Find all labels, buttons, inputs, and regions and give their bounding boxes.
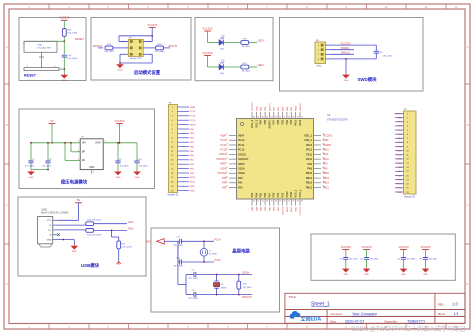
wire top loop to header pin1 (119, 36, 152, 42)
svg-text:VSS_1: VSS_1 (295, 189, 298, 197)
svg-text:22P_0603: 22P_0603 (173, 245, 183, 247)
ground (decap C19) (423, 267, 429, 276)
ground (C10) (134, 170, 140, 179)
svg-text:PB10: PB10 (287, 206, 289, 212)
svg-text:20: 20 (284, 200, 286, 202)
svg-text:9: 9 (227, 172, 228, 174)
wire gnd rail (vin side) (31, 169, 92, 174)
wire VBUS to 5V (57, 203, 79, 221)
svg-text:OSCIN: OSCIN (219, 153, 227, 156)
wire cap branch (63, 41, 65, 54)
svg-text:13: 13 (253, 200, 255, 202)
svg-text:LED: LED (220, 49, 225, 51)
svg-text:USB模块: USB模块 (81, 262, 100, 269)
ground arrow flag (crystal) (146, 239, 164, 244)
capacitor C10b 22P (osc) (186, 290, 252, 300)
resistor R15 1.5K (117, 241, 133, 249)
ground (regulator input) (28, 170, 34, 179)
svg-text:PA14: PA14 (299, 119, 302, 126)
svg-text:104_0603: 104_0603 (370, 259, 378, 261)
svg-text:SW1: SW1 (38, 44, 44, 46)
module title USB (81, 262, 100, 269)
svg-text:106_0805: 106_0805 (120, 166, 130, 168)
svg-text:C19: C19 (419, 259, 422, 261)
svg-text:GND: GND (401, 274, 406, 276)
svg-text:48: 48 (253, 117, 255, 119)
svg-text:VDD_3: VDD_3 (251, 119, 254, 128)
wire SWD pin3 SWCLK (333, 53, 355, 55)
svg-text:VCC3V3: VCC3V3 (114, 119, 125, 123)
pin header P2 Header 20 (right) (395, 109, 416, 199)
svg-text:R13 22R_0603: R13 22R_0603 (87, 234, 102, 236)
svg-text:VOUT: VOUT (95, 143, 102, 145)
svg-text:1M_0603: 1M_0603 (243, 287, 252, 289)
svg-text:PA11: PA11 (128, 221, 134, 224)
svg-text:LED1: LED1 (257, 63, 264, 67)
net label OSCOUT (242, 296, 253, 299)
svg-text:VCC3V3: VCC3V3 (252, 102, 254, 111)
node junction (reset net) (63, 40, 65, 42)
svg-text:VCC3V3: VCC3V3 (323, 134, 333, 137)
wire vcc to LED D4 (208, 31, 220, 43)
svg-text:BOOT0: BOOT0 (93, 44, 102, 48)
svg-text:Micro USB-B SP_C40983: Micro USB-B SP_C40983 (41, 211, 69, 214)
svg-text:PA11: PA11 (397, 158, 403, 161)
svg-text:BP: BP (82, 152, 86, 154)
svg-text:R14 22R_0603: R14 22R_0603 (87, 220, 102, 222)
svg-text:Your Company: Your Company (352, 312, 377, 316)
net labels for P1 pins (190, 106, 197, 193)
wire bus down to 8MHz loop (178, 241, 186, 294)
svg-text:45: 45 (266, 117, 268, 119)
svg-text:VCC3V3: VCC3V3 (361, 245, 372, 249)
wire cap to gnd rail (63, 57, 65, 74)
svg-text:PC15: PC15 (238, 149, 245, 152)
wire VOUT rail (103, 124, 137, 144)
power flag VCC3V3 (decap C18) (398, 245, 409, 250)
module box USB (18, 197, 146, 276)
svg-text:VBAT: VBAT (220, 134, 227, 137)
svg-text:1: 1 (227, 134, 228, 136)
svg-text:37: 37 (301, 117, 303, 119)
svg-text:C16: C16 (339, 259, 342, 261)
svg-text:PC13: PC13 (221, 139, 228, 142)
MCU top pins with rotated labels (251, 112, 303, 128)
svg-text:RESET: RESET (24, 74, 37, 78)
module box SWD (280, 18, 424, 92)
capacitor C19 104 (419, 250, 437, 268)
svg-text:22P_0603: 22P_0603 (188, 278, 198, 280)
ground (decap C18) (401, 267, 407, 276)
power flag VCC3V3 (decap C16) (341, 245, 352, 250)
svg-text:42: 42 (279, 117, 281, 119)
svg-text:43: 43 (275, 117, 277, 119)
USB1 reference text (41, 208, 69, 214)
svg-text:GND: GND (423, 274, 428, 276)
power flag VCC3V3 (led row 1) (202, 26, 213, 31)
svg-text:VCC3V3: VCC3V3 (393, 113, 402, 115)
svg-text:VSSA: VSSA (238, 167, 245, 170)
resistor R13 22R (86, 229, 102, 237)
svg-text:GND: GND (343, 274, 348, 276)
net label PA12 (128, 228, 134, 231)
svg-text:PA10: PA10 (323, 158, 329, 161)
LED D5 (219, 60, 225, 75)
svg-text:晶振电路: 晶振电路 (232, 248, 250, 255)
wire D+ pullup branch (112, 230, 119, 241)
MCU right pins with net labels (304, 134, 325, 189)
ground (decap C16) (343, 267, 349, 276)
wire VCC3V3 down (151, 28, 153, 37)
svg-text:4: 4 (227, 148, 228, 150)
svg-text:PA9: PA9 (307, 163, 312, 166)
svg-text:PB15: PB15 (323, 172, 330, 175)
title block Company field (330, 312, 377, 316)
svg-text:Company:: Company: (330, 312, 343, 316)
power flag VCC3V3 (boot) (147, 23, 158, 28)
svg-text:BOOT1: BOOT1 (282, 206, 284, 214)
svg-text:GND: GND (135, 177, 140, 179)
MCU left pins with net labels (226, 134, 250, 189)
svg-text:C: C (466, 203, 468, 207)
LED D4 (219, 35, 225, 50)
svg-text:PA1: PA1 (222, 182, 227, 185)
capacitor C15 104 (swd) (374, 45, 393, 59)
svg-text:B: B (467, 123, 469, 127)
svg-text:PC13: PC13 (190, 111, 196, 113)
wire GND pin to ground (57, 239, 74, 245)
svg-text:22P_0603: 22P_0603 (188, 298, 198, 300)
svg-text:PB13: PB13 (323, 182, 330, 185)
svg-text:PA3: PA3 (251, 192, 254, 197)
svg-text:PA13: PA13 (306, 144, 313, 147)
power flag VCC3V3 (decap C17) (361, 245, 372, 250)
svg-text:OSCOUT: OSCOUT (216, 158, 227, 161)
module box crystals (151, 228, 280, 312)
svg-text:PB14: PB14 (397, 179, 403, 181)
svg-text:PA7: PA7 (268, 192, 271, 197)
svg-text:PB1: PB1 (277, 192, 280, 197)
MCU U4 reference text (327, 113, 348, 122)
title block TITLE field (288, 295, 330, 307)
wire LED to R11 (223, 42, 240, 44)
svg-text:PB0: PB0 (273, 192, 276, 197)
svg-text:17: 17 (271, 200, 273, 202)
svg-text:VBAT: VBAT (190, 106, 196, 109)
svg-text:NRST: NRST (220, 163, 227, 166)
module box RESET (19, 18, 86, 81)
svg-text:PA15: PA15 (295, 119, 298, 126)
svg-text:104_0603: 104_0603 (383, 56, 394, 58)
svg-text:14: 14 (257, 200, 259, 202)
net label PC14 (215, 239, 222, 242)
wire to net LED1 (249, 66, 257, 68)
net label RESET (75, 37, 84, 41)
svg-text:BOOT1: BOOT1 (169, 44, 178, 48)
capacitor C11 22P (173, 237, 183, 247)
wire R14 to PA11 (94, 223, 127, 225)
svg-text:104_0603: 104_0603 (42, 166, 52, 168)
svg-text:REV:: REV: (438, 302, 445, 306)
svg-text:LED: LED (220, 73, 225, 75)
module box boot-mode (91, 18, 191, 81)
svg-text:GND: GND (344, 80, 349, 82)
net flag (usb pullup) (117, 262, 121, 265)
svg-text:OSCOUT: OSCOUT (238, 158, 249, 161)
svg-text:PB6: PB6 (277, 119, 280, 124)
svg-text:24: 24 (301, 200, 303, 202)
svg-text:7: 7 (227, 162, 228, 164)
wire R13 to PA12 (94, 230, 127, 232)
svg-text:GND: GND (190, 190, 195, 192)
svg-text:TWENTYY: TWENTYY (407, 320, 426, 324)
svg-text:PB3: PB3 (290, 119, 293, 124)
svg-text:PB15: PB15 (306, 172, 313, 175)
capacitor C17 104 (360, 250, 378, 268)
svg-text:11: 11 (425, 5, 428, 9)
ground (boot) (117, 63, 123, 72)
svg-text:22P_0603: 22P_0603 (173, 266, 183, 268)
svg-text:VBAT: VBAT (238, 134, 245, 137)
svg-text:8: 8 (227, 167, 228, 169)
title block REV field (438, 301, 459, 306)
svg-text:GND: GND (89, 167, 94, 169)
wire BP EN ties (64, 142, 80, 160)
wire left bus (crystal) (177, 241, 179, 262)
svg-text:32.768K: 32.768K (209, 254, 217, 256)
svg-text:PA6: PA6 (264, 192, 267, 197)
net label SWDIO (341, 46, 350, 50)
module title boot-mode (134, 69, 161, 76)
svg-text:Date:: Date: (330, 319, 337, 323)
svg-text:1/1: 1/1 (454, 312, 459, 316)
wire vcc to LED D5 (208, 56, 220, 68)
title block Sheet field (438, 312, 459, 316)
svg-text:VSSA: VSSA (220, 167, 227, 170)
svg-text:U4: U4 (327, 113, 331, 117)
svg-text:PA15: PA15 (397, 149, 403, 152)
svg-text:PC15: PC15 (215, 259, 222, 262)
svg-text:104_0603: 104_0603 (139, 166, 149, 168)
svg-text:SWCLK: SWCLK (341, 51, 350, 55)
svg-text:VSS_3: VSS_3 (255, 119, 258, 127)
svg-text:PC13: PC13 (238, 139, 245, 142)
wire junction to switch (24, 41, 64, 44)
svg-text:PA12: PA12 (306, 149, 313, 152)
svg-text:PB13: PB13 (306, 182, 313, 185)
wire to net LED0 (249, 42, 257, 44)
EasyEDA logo (290, 311, 322, 323)
svg-text:PB11: PB11 (290, 191, 293, 198)
net label BOOT1 (169, 44, 178, 48)
svg-text:GND: GND (116, 177, 121, 179)
svg-text:PA11: PA11 (306, 153, 312, 156)
wire R16 to node RESET (63, 37, 65, 42)
power flag VCC3V3 (led row 2) (202, 51, 213, 56)
net label LED1 (257, 63, 264, 67)
svg-text:PA5: PA5 (260, 192, 263, 197)
module box LEDs (195, 18, 273, 81)
svg-text:10K_0603: 10K_0603 (104, 51, 114, 53)
svg-text:46: 46 (262, 117, 264, 119)
net label BOOT0 (93, 44, 102, 48)
svg-text:VCC3V3: VCC3V3 (202, 26, 213, 30)
svg-text:RESET: RESET (75, 37, 84, 41)
regulator U2 body (78, 137, 106, 174)
net label VCC3V3 (swd) (340, 41, 351, 45)
svg-text:PB8: PB8 (264, 119, 267, 124)
module box decoupling caps (311, 234, 455, 280)
svg-text:VCC3V3: VCC3V3 (147, 23, 158, 27)
svg-text:PB13: PB13 (397, 184, 403, 186)
svg-text:3: 3 (227, 144, 228, 146)
svg-text:D-: D- (49, 225, 52, 227)
svg-text:VCC3V3: VCC3V3 (202, 51, 213, 55)
svg-text:GND: GND (323, 139, 329, 142)
module title SWD (357, 76, 377, 83)
wire LED to R12 (223, 66, 240, 68)
module title crystals (232, 248, 250, 255)
svg-text:Sheet:: Sheet: (438, 312, 446, 316)
svg-text:PB4: PB4 (286, 119, 289, 124)
power flag 5V (usb) (75, 198, 82, 203)
svg-text:PA12: PA12 (323, 148, 329, 151)
switch bottom contact bar with pins 2 and 1 (24, 63, 65, 71)
wire VCC3V3 to R16 (63, 20, 65, 28)
svg-text:GND: GND (118, 70, 123, 72)
svg-text:CSDN @TWENTYY二十的嵌入式学习笔记: CSDN @TWENTYY二十的嵌入式学习笔记 (351, 325, 465, 333)
svg-text:PC14: PC14 (215, 239, 222, 242)
capacitor C9 106 (vout) (115, 142, 129, 170)
svg-text:VDD_1: VDD_1 (299, 189, 302, 198)
svg-text:VCC3V3: VCC3V3 (59, 16, 70, 20)
wire BOOT0 (98, 47, 121, 49)
title block table (285, 293, 465, 323)
svg-text:PB10: PB10 (190, 177, 196, 179)
svg-text:PA2: PA2 (222, 186, 227, 189)
svg-text:OSCIN: OSCIN (242, 272, 250, 275)
svg-text:PB9: PB9 (260, 119, 263, 124)
wire D- to R14 (57, 224, 86, 225)
svg-text:PA10: PA10 (397, 162, 403, 165)
net labels for P2 pins (393, 113, 402, 193)
capacitor C9b 22P (osc) (186, 270, 252, 280)
MCU left external net labels (216, 134, 227, 189)
svg-text:12: 12 (454, 5, 458, 9)
svg-text:PA2: PA2 (238, 186, 243, 189)
resistor R18 10K (BOOT1) (155, 44, 165, 53)
svg-text:38: 38 (297, 117, 299, 119)
svg-text:8MHz: 8MHz (221, 288, 226, 290)
svg-text:OSCOUT: OSCOUT (242, 296, 253, 299)
wire gnd to C11 (164, 240, 180, 242)
svg-text:44: 44 (271, 117, 273, 119)
svg-text:PA8: PA8 (307, 167, 312, 170)
svg-text:OSCIN: OSCIN (238, 153, 246, 156)
capacitor C18 104 (397, 250, 415, 268)
svg-text:104_0603: 104_0603 (349, 259, 357, 261)
resistor R11 1K (241, 38, 251, 48)
wire SWD pin4 to gnd rail (333, 58, 377, 73)
svg-text:PB12: PB12 (323, 186, 330, 189)
svg-text:启动模式设置: 启动模式设置 (134, 69, 161, 76)
svg-text:PB5: PB5 (281, 119, 284, 124)
svg-text:40: 40 (288, 117, 290, 119)
svg-text:SWCLK: SWCLK (300, 103, 302, 111)
svg-text:BOOT0: BOOT0 (268, 119, 271, 128)
svg-text:稳压电源模块: 稳压电源模块 (61, 179, 88, 186)
resistor R14 22R (86, 220, 102, 226)
svg-text:104_0603: 104_0603 (67, 58, 78, 60)
svg-text:10K_0603: 10K_0603 (155, 51, 165, 53)
resistor R19 1M (237, 274, 252, 296)
svg-text:GND: GND (72, 251, 77, 253)
svg-text:PA9: PA9 (323, 163, 328, 166)
svg-text:PB11: PB11 (190, 182, 196, 184)
svg-text:A: A (467, 45, 469, 49)
svg-text:GND: GND (397, 192, 402, 194)
svg-text:GND: GND (397, 117, 402, 119)
wire 5V to VIN rail (51, 124, 53, 144)
capacitor C8 104 (vin) (42, 142, 52, 170)
MCU U4 STM32F103C8T6 body (237, 119, 314, 200)
pin header P1 Header 20 (left) (168, 102, 189, 196)
wire D+ to R13 (57, 229, 86, 232)
title block Date field (330, 319, 364, 323)
svg-text:1K_0603: 1K_0603 (242, 71, 251, 73)
svg-text:GND: GND (256, 106, 258, 111)
svg-text:VCC3V3: VCC3V3 (300, 206, 302, 215)
svg-text:GND: GND (146, 241, 151, 243)
svg-text:PB12: PB12 (306, 186, 313, 189)
svg-text:PA15: PA15 (295, 105, 298, 111)
module title regulator (61, 179, 88, 186)
watermark CSDN (351, 325, 465, 333)
svg-text:6: 6 (227, 158, 228, 160)
crystal X2 8MHz (214, 274, 227, 296)
svg-text:PC15: PC15 (190, 120, 196, 122)
svg-text:VCC3V3: VCC3V3 (217, 172, 227, 175)
wire SWD pin1 VCC3V3 (333, 44, 377, 46)
MCU right external net labels (323, 134, 333, 189)
svg-text:Header 20: Header 20 (404, 195, 415, 198)
svg-text:GND: GND (47, 239, 52, 241)
svg-text:NRST: NRST (190, 124, 197, 126)
switch SW1 TS2-1A-3.9GF (24, 41, 57, 63)
svg-text:104_0603: 104_0603 (407, 259, 415, 261)
svg-text:2: 2 (227, 139, 228, 141)
pin header P4 SWD 1x4 (315, 40, 333, 68)
svg-text:39: 39 (292, 117, 294, 119)
svg-text:SWDIO: SWDIO (323, 144, 331, 147)
svg-text:VCC: VCC (47, 220, 52, 222)
svg-text:LED0: LED0 (257, 39, 264, 43)
svg-text:Header 3X2: Header 3X2 (130, 57, 142, 60)
svg-text:PB2: PB2 (281, 192, 284, 197)
capacitor C13 104 (62, 55, 78, 60)
wire SWD pin2 SWDIO (333, 49, 355, 51)
net label SWCLK (341, 51, 350, 55)
svg-text:PC14: PC14 (190, 116, 196, 118)
wire BOOT1 (151, 47, 171, 49)
power flag 5V (regulator) (49, 119, 56, 124)
svg-text:PA0: PA0 (222, 177, 227, 180)
svg-text:5V: 5V (50, 119, 53, 123)
svg-text:1.0: 1.0 (452, 301, 458, 306)
wire VIN rail (31, 142, 80, 144)
resistor R16 10K (62, 29, 78, 37)
svg-text:10: 10 (384, 5, 388, 9)
